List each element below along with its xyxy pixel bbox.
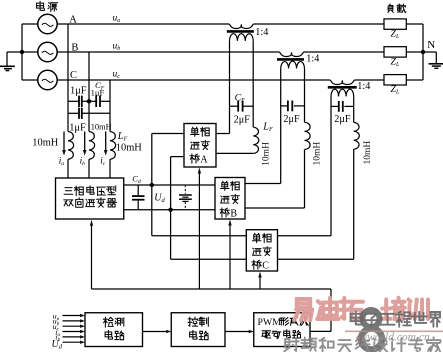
svg-text:10mH: 10mH — [262, 142, 272, 166]
svg-text:C: C — [70, 70, 77, 81]
svg-text:B: B — [230, 208, 237, 219]
svg-text:1μF: 1μF — [91, 87, 105, 97]
svg-text:2μF: 2μF — [234, 114, 251, 125]
svg-text:2μF: 2μF — [334, 114, 351, 125]
svg-text:N: N — [427, 39, 435, 51]
svg-text:10mH: 10mH — [363, 141, 373, 165]
svg-text:10mH: 10mH — [91, 123, 112, 132]
svg-text:10mH: 10mH — [32, 138, 58, 149]
svg-text:A: A — [200, 154, 208, 165]
svg-text:1:4: 1:4 — [306, 54, 319, 65]
svg-text:PWM: PWM — [258, 317, 282, 328]
svg-text:1μF: 1μF — [70, 86, 87, 97]
svg-text:1μF: 1μF — [69, 122, 86, 133]
svg-text:10mH: 10mH — [116, 142, 142, 153]
svg-text:1:4: 1:4 — [357, 81, 370, 92]
svg-text:2μF: 2μF — [283, 114, 300, 125]
svg-text:eworld.com.cn: eworld.com.cn — [362, 332, 430, 344]
svg-text:C: C — [262, 261, 269, 272]
svg-text:10mH: 10mH — [312, 142, 322, 166]
svg-text:1:4: 1:4 — [255, 27, 268, 38]
